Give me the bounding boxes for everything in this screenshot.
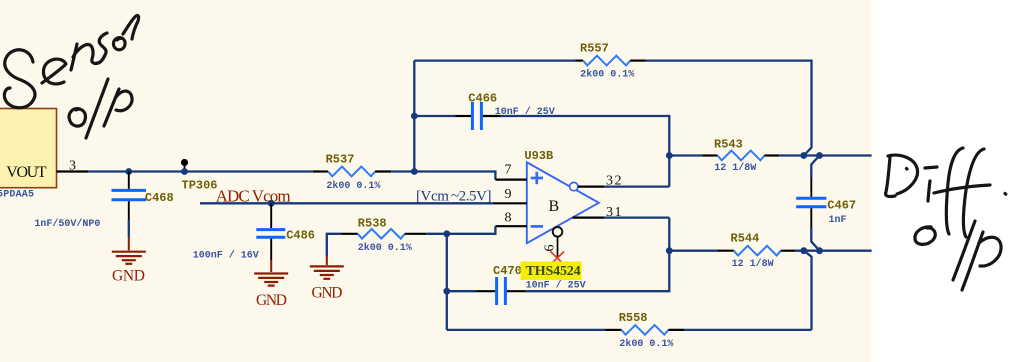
ground under C486 xyxy=(254,260,288,286)
svg-text:7: 7 xyxy=(505,163,512,178)
pin 7 stub xyxy=(495,163,526,180)
pin 8 stub xyxy=(495,211,526,227)
node junction C486 tap xyxy=(268,200,275,207)
ground under C468 xyxy=(112,237,146,264)
node junction feedback tap at x=446.8 xyxy=(443,230,450,237)
handwriting: Diff. xyxy=(886,148,1006,237)
svg-text:R544: R544 xyxy=(731,231,760,245)
svg-text:R558: R558 xyxy=(619,311,648,325)
resistor R557 xyxy=(575,42,646,81)
handwriting: o/p right xyxy=(915,221,1001,290)
wire: GND up to R538 xyxy=(327,234,341,257)
wire: R557 top rail left xyxy=(414,59,575,61)
resistor R558 xyxy=(606,311,685,350)
node junction upper output xyxy=(666,152,673,159)
pin 32 stub xyxy=(578,174,623,189)
node junction on input rail (C468 tap) xyxy=(125,168,132,175)
svg-text:C468: C468 xyxy=(145,191,174,205)
op-amp U93B xyxy=(524,149,598,243)
svg-text:VOUT: VOUT xyxy=(6,164,47,181)
node junction feedback tap on input rail xyxy=(411,168,418,175)
capacitor C486 xyxy=(193,203,315,261)
svg-text:R543: R543 xyxy=(714,138,743,152)
node junction C470 tap xyxy=(443,288,450,295)
resistor R543 xyxy=(669,138,779,175)
svg-text:10nF / 25V: 10nF / 25V xyxy=(526,280,586,292)
svg-text:2k00 0.1%: 2k00 0.1% xyxy=(326,180,380,192)
test point TP306 xyxy=(181,159,218,193)
svg-text:B: B xyxy=(549,198,560,215)
node junction upper right dot xyxy=(816,152,823,159)
wire: R557 right to C467 node xyxy=(646,61,812,156)
svg-text:R557: R557 xyxy=(580,42,609,56)
ground at R538 input xyxy=(310,257,344,279)
pin 31 stub xyxy=(573,205,624,220)
wire: mid vertical x=446.8 xyxy=(446,234,448,330)
svg-text:C466: C466 xyxy=(468,92,497,106)
wire: C467 top connection xyxy=(811,156,819,178)
svg-text:C467: C467 xyxy=(827,199,856,213)
wire: C468 to GND xyxy=(128,220,130,238)
pin 3 of VOUT box xyxy=(57,159,89,174)
wire: C470 rail right up to lower output node xyxy=(526,218,670,292)
wire: R544 to output rail xyxy=(796,250,872,252)
highlighted part value THS4524 xyxy=(521,262,582,281)
component sensor output box (VOUT, 5PDAA5) xyxy=(0,109,57,201)
wire: R537 to pin7 with jog xyxy=(391,172,495,180)
wire: Vcom rail xyxy=(200,202,493,204)
handwriting: Sensor xyxy=(4,15,138,107)
resistor R537 xyxy=(313,152,391,192)
svg-text:8: 8 xyxy=(505,211,512,226)
wire: C466 rail right, down to pin32 wire xyxy=(501,116,670,187)
wire: feedback vertical x=414 xyxy=(413,61,415,172)
wire: R558 right xyxy=(684,329,811,331)
wire: C467 bottom connection xyxy=(811,228,819,251)
wire: R543 to output rail xyxy=(779,154,871,156)
svg-text:THS4524: THS4524 xyxy=(526,264,581,279)
svg-text:C486: C486 xyxy=(286,229,315,243)
svg-text:100nF / 16V: 100nF / 16V xyxy=(193,250,259,262)
wire: R558 rail left xyxy=(447,329,606,331)
wire: pin31 to node xyxy=(604,216,669,218)
svg-text:12 1/8W: 12 1/8W xyxy=(732,258,774,270)
svg-text:GND: GND xyxy=(112,268,145,285)
svg-text:2k00 0.1%: 2k00 0.1% xyxy=(619,338,673,350)
node junction lower right dot xyxy=(816,247,823,254)
node junction upper C467/R557 left dot xyxy=(800,152,807,159)
pin 9 stub xyxy=(493,187,527,203)
node junction lower output xyxy=(666,247,673,254)
svg-text:U93B: U93B xyxy=(524,149,553,163)
svg-text:2k00 0.1%: 2k00 0.1% xyxy=(358,242,412,254)
wire: pin32 to node xyxy=(604,185,669,187)
wire: C466 rail left xyxy=(414,115,455,117)
pin 6 power-down with no-connect xyxy=(543,227,565,265)
svg-text:5PDAA5: 5PDAA5 xyxy=(0,190,34,201)
svg-text:3: 3 xyxy=(69,159,76,174)
wire: main input rail left xyxy=(88,170,313,172)
svg-text:6: 6 xyxy=(543,245,558,252)
svg-text:C470: C470 xyxy=(493,264,522,278)
node junction lower left dot xyxy=(800,247,807,254)
capacitor C470 xyxy=(477,264,586,305)
wire: R538 to pin8 with jog xyxy=(426,226,495,234)
wire: R558 vertical riser xyxy=(804,251,812,330)
node junction C466 tap xyxy=(411,113,418,120)
svg-text:1nF: 1nF xyxy=(829,215,847,226)
svg-text:R538: R538 xyxy=(358,216,387,230)
capacitor C467 xyxy=(796,178,856,228)
capacitor C468 xyxy=(34,172,173,231)
svg-text:GND: GND xyxy=(312,285,343,302)
svg-text:1nF/50V/NP0: 1nF/50V/NP0 xyxy=(34,218,100,230)
svg-text:9: 9 xyxy=(505,187,512,202)
resistor R538 xyxy=(341,216,426,254)
svg-text:2k00 0.1%: 2k00 0.1% xyxy=(580,68,634,80)
handwriting: o/p left xyxy=(69,79,132,138)
resistor R544 xyxy=(669,231,795,269)
svg-text:GND: GND xyxy=(256,292,287,309)
svg-text:TP306: TP306 xyxy=(182,179,218,193)
svg-text:12 1/8W: 12 1/8W xyxy=(714,162,756,174)
svg-text:R537: R537 xyxy=(326,152,355,166)
wire: C470 rail left xyxy=(447,290,477,292)
capacitor C466 xyxy=(456,92,555,131)
svg-text:[Vcm ~2.5V]: [Vcm ~2.5V] xyxy=(416,189,492,205)
